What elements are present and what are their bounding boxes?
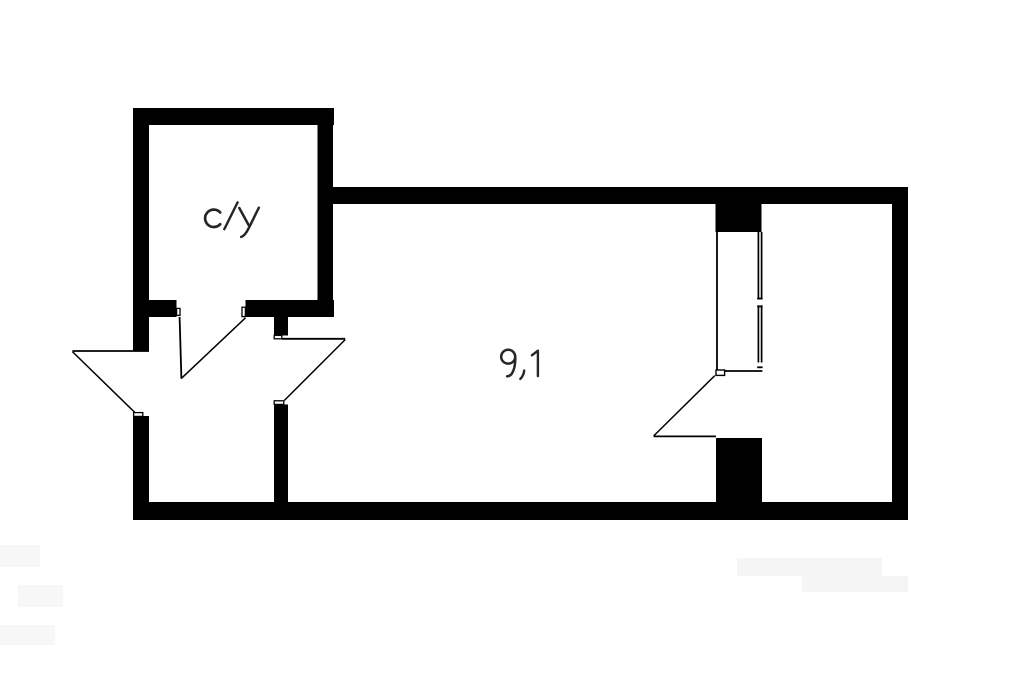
window: joint tick lower xyxy=(757,306,762,308)
window: outer double line (left) xyxy=(757,232,759,363)
door B (bathroom): jamb cap left xyxy=(177,308,180,315)
wall: left outer lower segment xyxy=(133,416,149,520)
wall: bathroom right xyxy=(318,108,334,316)
door C (room): swing chord xyxy=(284,340,345,401)
door D (balcony): swing chord xyxy=(654,376,715,436)
door D (balcony): leaf line xyxy=(654,435,716,437)
faint watermark bottom-right xyxy=(737,558,908,592)
digit 9 bowl xyxy=(501,350,515,364)
window: joint tick upper xyxy=(757,298,762,300)
wall: hallway partition upper stub xyxy=(274,317,288,336)
window: joint gap xyxy=(757,300,762,306)
door A (entrance): jamb cap xyxy=(134,413,143,417)
wall: main room top xyxy=(331,187,908,204)
wall: balcony partition upper block xyxy=(716,204,762,232)
faint watermark bottom-left xyxy=(0,545,63,645)
door C (room): jamb cap lower xyxy=(274,401,284,405)
door B (bathroom): leaf line xyxy=(180,317,182,379)
wall: bottom outer xyxy=(133,502,908,520)
wall: bathroom bottom right part xyxy=(246,300,335,317)
wall: hallway partition lower segment xyxy=(274,405,288,503)
wall: left outer upper segment xyxy=(133,108,149,351)
wall: bathroom top (outer) xyxy=(133,108,334,125)
door C (room): jamb cap upper xyxy=(274,335,282,338)
window: left edge line xyxy=(716,232,718,371)
letter с xyxy=(205,210,220,227)
door C (room): leaf line xyxy=(282,338,345,340)
digit 1 xyxy=(532,351,538,376)
wall: bathroom bottom left stub xyxy=(149,300,177,317)
label: room area "9,1" drawn as light geometric strokes xyxy=(501,350,538,379)
wall: right outer xyxy=(892,187,908,520)
digit 9 tail xyxy=(507,356,515,376)
door B (bathroom): jamb cap right xyxy=(242,307,245,316)
label: bathroom "с/у" drawn as light geometric strokes xyxy=(205,202,259,237)
door B (bathroom): swing chord xyxy=(181,318,245,379)
wall: balcony partition lower block xyxy=(716,438,762,503)
door D (balcony): jamb cap xyxy=(716,370,725,375)
window: outer double line (right) xyxy=(761,232,763,363)
comma xyxy=(520,371,524,379)
window: bottom joint tick xyxy=(757,366,762,368)
slash / xyxy=(224,202,237,229)
letter у xyxy=(239,208,249,225)
door A (entrance): leaf line xyxy=(72,350,149,352)
door A (entrance): swing chord xyxy=(72,352,136,414)
window: sill bottom line xyxy=(724,370,762,372)
